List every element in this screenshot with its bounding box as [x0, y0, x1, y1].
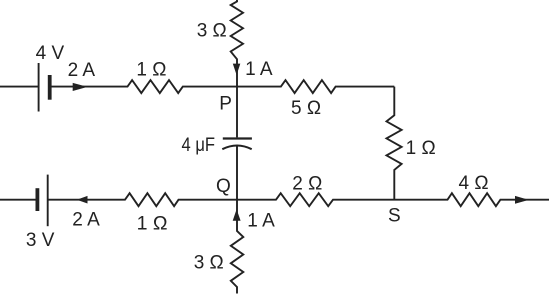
svg-text:1 A: 1 A	[247, 210, 275, 231]
svg-text:P: P	[219, 94, 232, 115]
svg-text:3 Ω: 3 Ω	[197, 20, 227, 41]
svg-text:1 Ω: 1 Ω	[137, 213, 168, 234]
svg-text:4 V: 4 V	[36, 43, 65, 64]
svg-text:3 V: 3 V	[26, 230, 55, 251]
svg-text:2 Ω: 2 Ω	[292, 174, 322, 195]
svg-text:S: S	[388, 205, 401, 226]
svg-text:Q: Q	[216, 176, 231, 197]
svg-text:1 Ω: 1 Ω	[406, 138, 436, 159]
svg-text:2 A: 2 A	[72, 209, 100, 230]
svg-text:5 Ω: 5 Ω	[291, 98, 321, 119]
svg-text:2 A: 2 A	[68, 60, 96, 81]
svg-text:1 A: 1 A	[245, 59, 273, 80]
svg-text:4 μF: 4 μF	[182, 135, 216, 156]
svg-text:3 Ω: 3 Ω	[194, 252, 224, 273]
svg-text:4 Ω: 4 Ω	[459, 173, 489, 194]
svg-text:1 Ω: 1 Ω	[136, 60, 166, 81]
